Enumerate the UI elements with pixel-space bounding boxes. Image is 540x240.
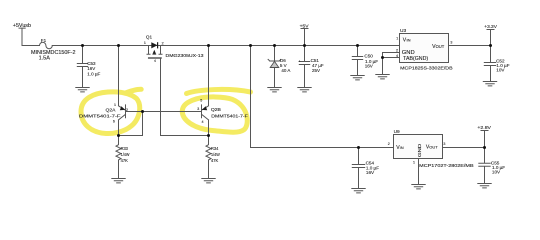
svg-text:U3: U3	[400, 28, 406, 34]
resistor R34	[206, 136, 211, 179]
svg-text:47K: 47K	[211, 158, 219, 163]
svg-text:TAB(GND): TAB(GND)	[403, 56, 428, 62]
ground (C54)	[352, 189, 365, 193]
capacitor C53	[77, 46, 87, 88]
junction U3 GND/TAB node	[381, 56, 384, 59]
ground (D6)	[268, 88, 281, 92]
svg-text:40 A: 40 A	[281, 68, 290, 73]
svg-text:R34: R34	[211, 146, 219, 151]
svg-text:1.5A: 1.5A	[39, 55, 51, 61]
highlighter oval around Q2A	[81, 89, 141, 133]
ground (R34)	[202, 179, 215, 183]
svg-text:16V: 16V	[87, 66, 95, 71]
svg-text:5: 5	[200, 98, 202, 102]
svg-text:2: 2	[162, 41, 164, 45]
wire base to collector jog	[119, 112, 143, 136]
svg-text:5 V: 5 V	[280, 63, 287, 68]
svg-text:2: 2	[126, 108, 128, 112]
transistor Q2A emitter arrow	[120, 106, 125, 110]
svg-text:Q2B: Q2B	[211, 107, 221, 112]
highlighter oval around Q2B	[181, 96, 248, 133]
mosfet Q1 gate bar	[149, 57, 161, 59]
wire base net	[126, 111, 202, 113]
power flag +2.8V	[481, 131, 488, 148]
svg-text:DMMT5401-7-F: DMMT5401-7-F	[79, 113, 121, 118]
svg-text:47 µF: 47 µF	[312, 63, 324, 68]
power flag +5V	[301, 29, 308, 46]
svg-text:16V: 16V	[366, 170, 375, 175]
zener D6 triangle	[270, 61, 279, 67]
svg-text:10V: 10V	[492, 170, 501, 175]
junction C54 on U9 VIN net	[357, 146, 360, 149]
junction Q2B collector / R34	[207, 134, 210, 137]
junction D6 on +5V rail	[273, 44, 276, 47]
svg-text:GND: GND	[417, 143, 423, 157]
junction U9 feed on +5V rail	[249, 44, 252, 47]
capacitor C50	[352, 46, 362, 76]
capacitor C51	[299, 46, 309, 88]
wire main +5V rail	[52, 45, 399, 47]
wire +5Vusb to fuse	[22, 45, 40, 47]
power flag +3.3V	[487, 30, 494, 46]
voltage regulator U3 box	[400, 34, 449, 63]
svg-text:DMG2305UX-13: DMG2305UX-13	[166, 53, 204, 58]
transistor Q2A	[119, 46, 126, 136]
junction Q2A collector / R33	[117, 134, 120, 137]
svg-text:Q1: Q1	[146, 34, 153, 39]
svg-text:16V: 16V	[365, 63, 374, 68]
svg-text:25V: 25V	[312, 68, 320, 73]
junction C50 on +5V rail	[356, 44, 359, 47]
wire U9 gnd pin	[418, 159, 420, 184]
wire U3 vout	[449, 45, 491, 47]
svg-text:10V: 10V	[496, 68, 505, 73]
junction Q2A emitter on +5V rail	[117, 44, 120, 47]
transistor Q2B emitter arrow	[202, 106, 207, 110]
svg-text:3: 3	[197, 107, 199, 111]
capacitor C54	[352, 148, 364, 189]
junction C53 on +5V rail	[81, 44, 84, 47]
fuse F1	[40, 42, 53, 48]
svg-text:4: 4	[154, 59, 156, 63]
mosfet Q1 bulk arrow	[153, 50, 156, 54]
junction Q2B emitter on +5V rail	[207, 44, 210, 47]
ground (C53)	[76, 88, 89, 92]
wire U9 vout	[443, 147, 485, 149]
svg-text:+5V: +5V	[300, 24, 310, 30]
capacitor C55	[479, 148, 490, 184]
junction C51 / +5V flag on rail	[303, 44, 306, 47]
wire drop to U9 rail	[251, 46, 394, 148]
ground (C55)	[478, 184, 491, 188]
svg-text:MCP1702T-2802E/MB: MCP1702T-2802E/MB	[419, 163, 473, 169]
ground (C52)	[483, 82, 496, 86]
svg-text:3: 3	[450, 41, 452, 45]
svg-text:+3.3V: +3.3V	[484, 24, 497, 30]
svg-text:2: 2	[388, 142, 390, 146]
svg-text:R33: R33	[121, 146, 129, 151]
svg-text:Q2A: Q2A	[106, 107, 117, 112]
junction +3.3V flag / C52 on U3 VOUT	[489, 44, 492, 47]
ground (U9)	[412, 185, 425, 189]
svg-text:3: 3	[443, 142, 445, 146]
svg-text:6: 6	[113, 120, 115, 124]
svg-text:1/4W: 1/4W	[121, 152, 130, 157]
svg-text:MCP1825S-3302E/DB: MCP1825S-3302E/DB	[400, 65, 452, 71]
highlighter swoosh above Q2B	[187, 89, 251, 93]
svg-text:1: 1	[114, 103, 116, 107]
svg-text:DMMT5401-7-F: DMMT5401-7-F	[211, 114, 248, 119]
mosfet Q1 body diode	[151, 42, 157, 48]
junction base net node	[141, 110, 144, 113]
mosfet Q1 channel	[147, 46, 162, 55]
svg-text:U9: U9	[394, 129, 400, 135]
svg-text:4: 4	[396, 54, 398, 58]
voltage regulator U9 box	[394, 135, 443, 159]
ground (C51)	[298, 88, 311, 92]
svg-text:1.0 µF: 1.0 µF	[87, 71, 100, 76]
transistor Q2B	[202, 46, 209, 136]
svg-text:F1: F1	[41, 38, 47, 43]
svg-text:1: 1	[396, 37, 398, 41]
ground (C50)	[351, 76, 364, 80]
svg-text:1: 1	[413, 160, 415, 164]
ground (U3)	[376, 75, 389, 79]
svg-text:+5Vusb: +5Vusb	[13, 23, 31, 29]
wire U3 gnd/tab	[383, 53, 400, 75]
svg-text:2: 2	[396, 49, 398, 53]
junction +2.8V flag / C55 on U9 VOUT	[483, 146, 486, 149]
wire Q1 gate net	[161, 58, 209, 135]
capacitor C52	[484, 46, 495, 81]
zener diode D6	[268, 46, 281, 88]
svg-text:4: 4	[202, 120, 204, 124]
power flag +5Vusb	[19, 28, 25, 45]
svg-text:+2.8V: +2.8V	[477, 125, 491, 131]
svg-text:1: 1	[144, 41, 146, 45]
svg-text:1/4W: 1/4W	[211, 152, 220, 157]
resistor R33	[116, 136, 121, 179]
ground (R33)	[112, 179, 125, 183]
svg-text:47K: 47K	[121, 158, 129, 163]
